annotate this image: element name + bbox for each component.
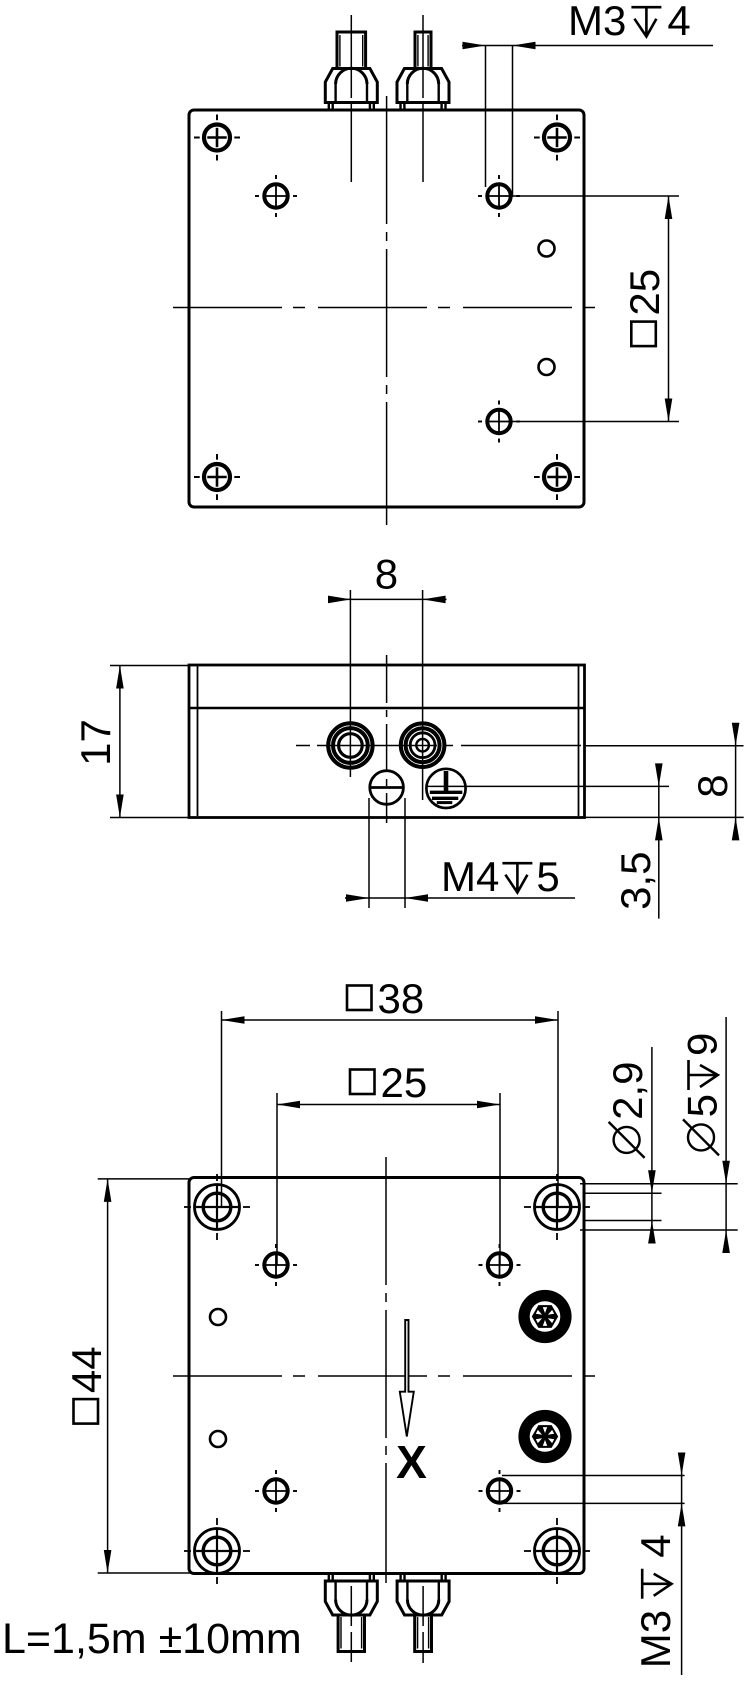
dim dia5 extension lines [580, 1183, 738, 1185]
bottom view top-right corner screw [535, 1185, 580, 1230]
top view small hole upper [539, 241, 555, 257]
dim 3,5 extension line [427, 785, 669, 787]
svg-text:4: 4 [667, 0, 690, 44]
top view right gland centerline [422, 15, 424, 187]
dim M3b line with arrows [681, 1453, 683, 1675]
top view left cable gland [329, 103, 374, 111]
dim 8 right extension line [585, 745, 744, 747]
dim 8 right line with arrows [735, 723, 737, 840]
bottom view M3 hole upper-left [264, 1253, 287, 1276]
dim M4 extension lines [368, 798, 370, 908]
bottom view bottom-left corner screw [195, 1529, 240, 1574]
svg-text:2,9: 2,9 [604, 1062, 651, 1120]
dim M4 line with arrows [345, 897, 575, 899]
svg-text:44: 44 [63, 1346, 110, 1393]
top view plate outline [189, 110, 584, 507]
top view right cable gland [401, 103, 446, 111]
top view vertical centerline [386, 96, 388, 525]
dim 38 extension lines [221, 1011, 223, 1207]
dim label dia 2,9 rotated [604, 1062, 651, 1158]
dim dia5 line with arrows [725, 1017, 727, 1252]
top view top-right corner screw [544, 125, 570, 151]
bottom view bottom-right corner screw [535, 1529, 580, 1574]
top view bottom-right corner screw [544, 464, 570, 490]
dim 25b extension lines [276, 1093, 278, 1265]
side view horizontal centerline [296, 745, 584, 747]
bottom view connector socket upper [518, 1290, 571, 1343]
dim label square 44 rotated [63, 1346, 110, 1423]
dim label square 25b [350, 1059, 427, 1106]
dim label M3 depth 4 rotated [632, 1534, 679, 1668]
dim 25b line with arrows [277, 1104, 500, 1106]
dim dia2,9 line with arrows [651, 1047, 653, 1240]
bottom view plate outline [189, 1178, 584, 1574]
svg-text:38: 38 [378, 975, 425, 1022]
top view M3 hole lower-right [487, 410, 510, 433]
bottom view left cable gland [329, 1574, 374, 1582]
side view body outline [189, 665, 585, 818]
bottom view top-left corner screw [195, 1185, 240, 1230]
bottom view M3 hole upper-right [488, 1253, 511, 1276]
side view left step line [197, 666, 199, 816]
bottom view left gland centerline [350, 1586, 352, 1662]
bottom view right gland centerline [422, 1586, 424, 1663]
svg-text:X: X [396, 1436, 427, 1488]
svg-text:25: 25 [621, 269, 668, 316]
dim 3,5 line with arrows [658, 764, 660, 919]
bottom view X direction arrow [400, 1320, 414, 1437]
dim 17 line with arrows [119, 666, 121, 818]
dim 44 extension lines [98, 1178, 192, 1180]
dim label square 38 [347, 975, 424, 1022]
dim 25 line with arrows [668, 196, 670, 422]
side view left connector centerline [349, 590, 351, 777]
top view top-left corner screw [204, 125, 230, 151]
svg-text:25: 25 [381, 1059, 428, 1106]
svg-text:5: 5 [536, 853, 559, 900]
top view left gland centerline [350, 15, 352, 186]
dim label M3 depth 4 [568, 0, 691, 44]
dim label dia 5 depth 9 rotated [678, 1033, 725, 1156]
svg-text:5: 5 [678, 1094, 725, 1117]
dim label square 25 rotated [621, 269, 668, 346]
dim M3 depth 4 extension lines [485, 46, 487, 188]
dim 8 top line with arrows [329, 598, 447, 600]
svg-text:L=1,5m ±10mm: L=1,5m ±10mm [2, 1615, 302, 1663]
top view M3 hole upper-right [487, 184, 510, 207]
side view right connector centerline [422, 590, 424, 800]
svg-text:4: 4 [632, 1534, 679, 1557]
side view left connector [328, 723, 372, 767]
top view bottom-left corner screw [204, 464, 230, 490]
side view right connector [401, 723, 445, 767]
side view ground screw [426, 769, 465, 808]
svg-text:17: 17 [72, 719, 119, 766]
bottom view small hole upper [210, 1309, 226, 1325]
bottom view right cable gland [401, 1574, 446, 1582]
top view horizontal centerline [173, 307, 597, 309]
bottom view small hole lower [210, 1431, 226, 1447]
svg-text:3,5: 3,5 [612, 852, 659, 910]
top view small hole lower [539, 359, 555, 375]
bottom view M3 hole lower-right [488, 1479, 511, 1502]
dim 25 extension lines [512, 195, 679, 197]
dim M3b extension lines [502, 1475, 685, 1477]
dim 38 line with arrows [222, 1019, 559, 1021]
bottom view vertical centerline [385, 1157, 387, 1583]
dim label M4 depth 5 [441, 853, 560, 900]
bottom view M3 hole lower-left [264, 1479, 287, 1502]
side view lid joint line [190, 707, 584, 709]
dim label 3,5 rotated [612, 852, 659, 910]
top view M3 hole upper-left [264, 184, 287, 207]
dim M3 depth 4 line with arrows [462, 45, 713, 47]
svg-text:8: 8 [375, 551, 398, 598]
svg-text:M4: M4 [441, 853, 499, 900]
svg-text:8: 8 [689, 774, 736, 797]
side view vertical centerline [386, 655, 388, 823]
dim label 8 right rotated [689, 774, 736, 797]
dim 44 line with arrows [107, 1179, 109, 1573]
dim label 17 rotated [72, 719, 119, 766]
bottom view horizontal centerline [173, 1375, 600, 1377]
bottom view connector socket lower [518, 1410, 571, 1463]
dim 17 extension lines [110, 665, 190, 667]
svg-text:9: 9 [678, 1033, 725, 1056]
side view M4 screw [370, 771, 404, 805]
side view right step line [578, 666, 580, 816]
svg-text:M3: M3 [568, 0, 626, 44]
dim dia2,9 extension lines [584, 1192, 662, 1194]
dim label 8 top [375, 551, 398, 598]
svg-text:M3: M3 [632, 1610, 679, 1668]
